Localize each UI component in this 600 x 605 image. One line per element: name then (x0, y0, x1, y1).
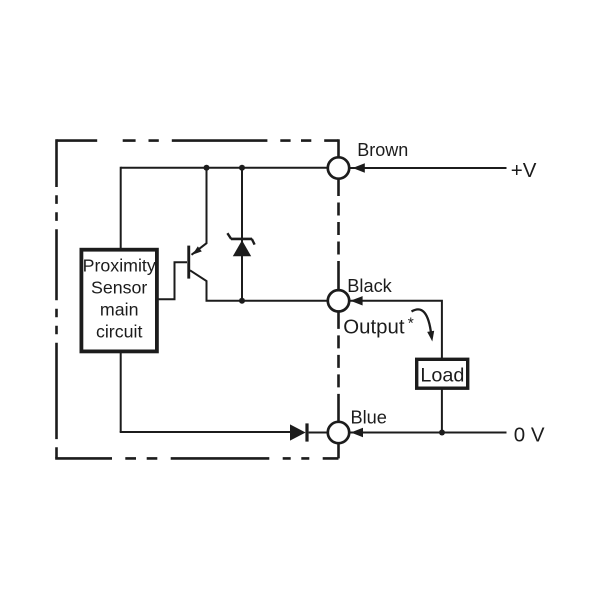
sensor enclosure border bottom (55, 457, 338, 460)
node: load / 0V junction (439, 430, 445, 436)
svg-text:*: * (408, 316, 414, 333)
proximity sensor main circuit box (81, 250, 156, 352)
svg-text:+V: +V (511, 159, 537, 182)
svg-text:Proximity: Proximity (83, 256, 156, 276)
transistor Q1 base lead (158, 262, 187, 299)
wire: output line collector to Black terminal (206, 300, 329, 302)
wire: rail drop to main-circuit box (120, 167, 122, 249)
svg-text:Brown: Brown (357, 140, 408, 160)
terminal Blue (328, 422, 349, 443)
zener diode ZD triangle (233, 240, 251, 256)
wire: load to 0V line (441, 389, 443, 433)
wire: 0V line (350, 432, 507, 434)
sensor enclosure border right: Blue terminal to bottom corner (337, 443, 340, 458)
svg-text:Black: Black (347, 276, 392, 296)
sensor enclosure border top (57, 139, 339, 142)
sensor enclosure border right: dashed Black to Blue (337, 312, 340, 422)
zener diode ZD left tick (227, 233, 231, 239)
svg-text:0 V: 0 V (514, 423, 545, 446)
transistor Q1 emitter lead (192, 168, 207, 255)
wire: +V line (350, 167, 507, 169)
wire: box bottom drop to blue wire (120, 353, 122, 433)
diode D1 cathode bar (305, 423, 308, 441)
svg-text:Load: Load (420, 365, 464, 387)
terminal Brown (328, 157, 349, 178)
curved arrow output to load (412, 309, 432, 335)
wire: internal +V rail (121, 167, 328, 169)
load box (417, 359, 468, 388)
transistor Q1 base bar (187, 246, 190, 279)
node: rail / zener junction (239, 165, 245, 171)
svg-text:Blue: Blue (351, 408, 387, 428)
sensor enclosure border right: dashed Brown to Black (337, 179, 340, 291)
zener diode ZD lead (241, 168, 243, 301)
svg-text:main: main (100, 300, 139, 320)
arrow into Black terminal (350, 296, 362, 305)
svg-text:circuit: circuit (96, 322, 142, 342)
transistor Q1 emitter arrow (PNP) (192, 246, 202, 254)
diode D1 on blue wire (290, 424, 306, 440)
transistor Q1 collector lead (190, 270, 207, 301)
zener diode ZD right tick (252, 239, 255, 245)
node: rail / emitter junction (204, 165, 210, 171)
svg-text:Output: Output (343, 317, 405, 339)
sensor enclosure border right: corner to Brown terminal (337, 139, 340, 157)
arrow into Blue terminal (351, 428, 363, 437)
terminal Black (328, 290, 349, 311)
zener diode ZD cathode bar (231, 238, 252, 241)
sensor enclosure border left (55, 139, 58, 458)
arrow into Brown terminal (353, 163, 365, 172)
wire: diode to Blue terminal (309, 432, 328, 434)
wire: blue wire to diode (120, 431, 291, 433)
node: output / zener junction (239, 298, 245, 304)
svg-text:Sensor: Sensor (91, 278, 147, 298)
wire: load line from Black terminal (350, 301, 442, 359)
